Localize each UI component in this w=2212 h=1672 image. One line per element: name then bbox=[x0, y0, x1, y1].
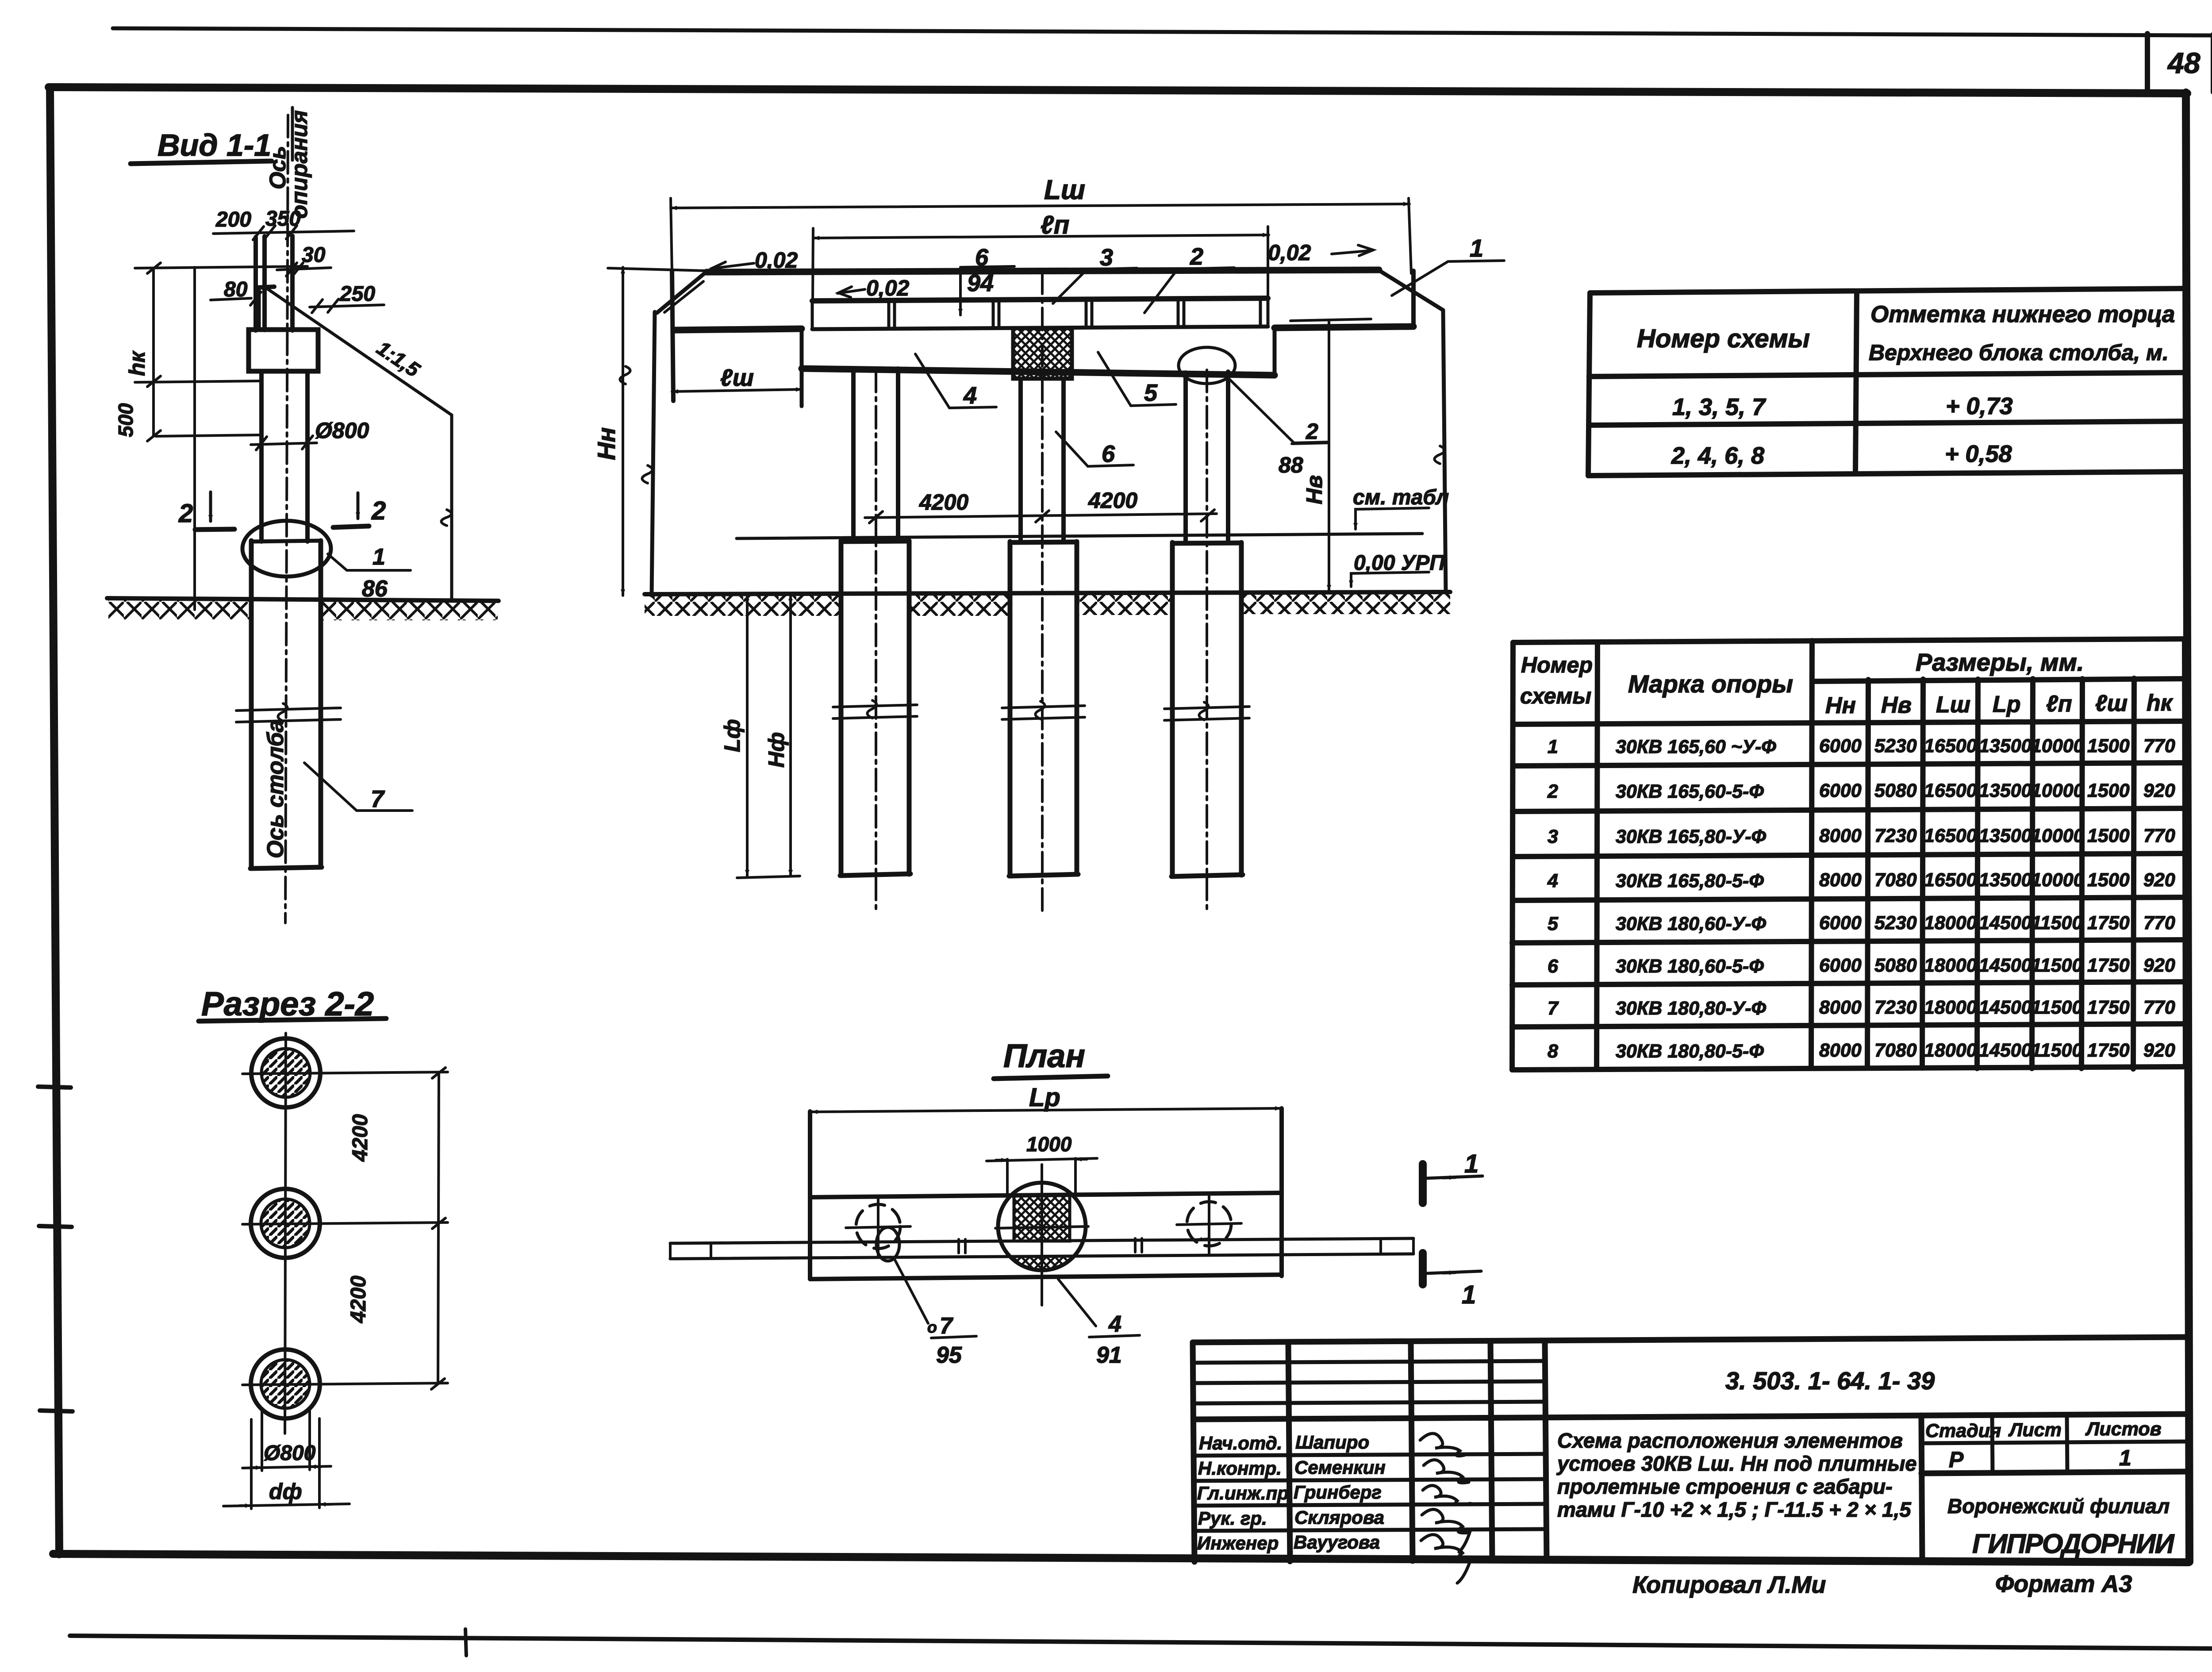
svg-text:500: 500 bbox=[114, 403, 137, 437]
dim 4200 4200 vertical bbox=[347, 1068, 445, 1389]
svg-text:Нач.отд.: Нач.отд. bbox=[1199, 1433, 1282, 1453]
svg-text:18000: 18000 bbox=[1924, 997, 1977, 1018]
svg-text:7230: 7230 bbox=[1874, 825, 1917, 846]
svg-text:11500: 11500 bbox=[2031, 997, 2082, 1018]
svg-text:0,02: 0,02 bbox=[755, 248, 798, 273]
svg-text:1: 1 bbox=[1462, 1280, 1476, 1309]
document number bbox=[1725, 1367, 1935, 1395]
svg-text:План: План bbox=[1003, 1038, 1085, 1074]
svg-text:770: 770 bbox=[2143, 735, 2175, 757]
pile circle 1 bbox=[242, 1038, 448, 1107]
sheet number box 48 bbox=[2147, 34, 2212, 92]
svg-text:920: 920 bbox=[2143, 869, 2175, 891]
dim Lsh top bbox=[671, 175, 1411, 273]
leader 4 bbox=[915, 354, 996, 409]
svg-text:30КВ 180,60-У-Ф: 30КВ 180,60-У-Ф bbox=[1616, 913, 1767, 934]
plan center column circle with pad bbox=[995, 1165, 1088, 1305]
svg-text:Инженер: Инженер bbox=[1197, 1533, 1279, 1553]
column axis dash-dot bbox=[285, 115, 288, 923]
embankment slope 1:1.5 bbox=[264, 286, 452, 600]
svg-text:dф: dф bbox=[269, 1479, 302, 1504]
svg-text:11500: 11500 bbox=[2031, 912, 2082, 934]
svg-text:ℓп: ℓп bbox=[1041, 211, 1069, 239]
leader 6 bbox=[1056, 432, 1133, 467]
svg-text:Номер схемы: Номер схемы bbox=[1637, 324, 1810, 353]
column center bbox=[1021, 272, 1064, 912]
dim Lp bbox=[811, 1083, 1281, 1112]
svg-text:схемы: схемы bbox=[1520, 684, 1591, 708]
svg-text:1: 1 bbox=[1548, 736, 1558, 757]
dim Hv (right) bbox=[1290, 319, 1371, 591]
svg-text:ГИПРОДОРНИИ: ГИПРОДОРНИИ bbox=[1972, 1529, 2175, 1559]
svg-text:1: 1 bbox=[1464, 1149, 1479, 1178]
svg-text:1500: 1500 bbox=[2087, 869, 2130, 891]
svg-text:10000: 10000 bbox=[2031, 869, 2084, 891]
cap right face bbox=[1411, 271, 1416, 327]
svg-text:Гл.инж.пр: Гл.инж.пр bbox=[1197, 1483, 1289, 1503]
svg-text:91: 91 bbox=[1096, 1342, 1122, 1368]
svg-text:Копировал Л.Ми: Копировал Л.Ми bbox=[1632, 1572, 1826, 1598]
svg-text:95: 95 bbox=[936, 1342, 962, 1368]
big table data bbox=[1547, 735, 2175, 1062]
svg-text:7230: 7230 bbox=[1874, 997, 1917, 1018]
bottom notes bbox=[1632, 1571, 2132, 1598]
svg-text:18000: 18000 bbox=[1924, 955, 1977, 976]
svg-text:см. табл: см. табл bbox=[1353, 486, 1449, 509]
svg-text:7080: 7080 bbox=[1874, 1040, 1917, 1061]
svg-text:6000: 6000 bbox=[1819, 735, 1862, 757]
svg-text:920: 920 bbox=[2143, 780, 2175, 801]
upper table texts bbox=[1637, 301, 2175, 469]
svg-text:7: 7 bbox=[1548, 998, 1559, 1019]
svg-text:1750: 1750 bbox=[2087, 912, 2130, 934]
svg-text:11500: 11500 bbox=[2031, 955, 2082, 976]
svg-text:350: 350 bbox=[265, 207, 301, 231]
cap block bbox=[249, 330, 318, 371]
svg-text:8000: 8000 bbox=[1819, 869, 1862, 891]
column right bbox=[1186, 370, 1228, 913]
svg-text:1, 3, 5, 7: 1, 3, 5, 7 bbox=[1672, 394, 1767, 420]
plan edge strip bbox=[670, 1238, 1413, 1259]
pile-top level line bbox=[737, 534, 1422, 538]
svg-text:Рук. гр.: Рук. гр. bbox=[1198, 1508, 1267, 1529]
dim d800 (section) bbox=[242, 1411, 331, 1471]
svg-text:Верхнего блока столба, м.: Верхнего блока столба, м. bbox=[1869, 340, 2169, 365]
svg-text:4: 4 bbox=[1547, 870, 1558, 892]
svg-text:14500: 14500 bbox=[1979, 997, 2032, 1018]
svg-text:30КВ 165,80-5-Ф: 30КВ 165,80-5-Ф bbox=[1616, 870, 1764, 892]
dim d800 (view) bbox=[251, 418, 369, 450]
svg-text:Формат А3: Формат А3 bbox=[1995, 1571, 2132, 1597]
svg-text:+ 0,73: + 0,73 bbox=[1946, 393, 2013, 419]
slope 0,02 right bbox=[1268, 240, 1373, 265]
svg-text:48: 48 bbox=[2167, 46, 2200, 79]
svg-text:Размеры, мм.: Размеры, мм. bbox=[1916, 648, 2084, 676]
svg-text:30КВ 165,60-5-Ф: 30КВ 165,60-5-Ф bbox=[1616, 781, 1764, 802]
dim lsh (cap left) bbox=[672, 365, 802, 392]
section mark 2 left bbox=[178, 492, 234, 530]
svg-text:устоев 30КВ Lш. Hн под плитные: устоев 30КВ Lш. Hн под плитные bbox=[1556, 1452, 1917, 1475]
description text bbox=[1556, 1429, 1917, 1521]
svg-text:Р: Р bbox=[1949, 1447, 1964, 1472]
svg-text:Номер: Номер bbox=[1521, 653, 1593, 677]
svg-text:5: 5 bbox=[1548, 913, 1559, 934]
svg-text:Lш: Lш bbox=[1936, 692, 1970, 718]
svg-text:920: 920 bbox=[2143, 955, 2175, 976]
pile right (elevation) bbox=[1171, 542, 1243, 876]
svg-text:8000: 8000 bbox=[1819, 997, 1862, 1018]
svg-text:ℓш: ℓш bbox=[2095, 691, 2128, 716]
svg-text:Марка опоры: Марка опоры bbox=[1628, 670, 1793, 698]
svg-text:Листов: Листов bbox=[2085, 1418, 2162, 1440]
dim Hf bbox=[764, 594, 791, 876]
big table grid bbox=[1512, 639, 2185, 1070]
organization bbox=[1947, 1495, 2175, 1559]
svg-text:Вауугова: Вауугова bbox=[1294, 1532, 1380, 1553]
svg-text:14500: 14500 bbox=[1979, 1040, 2032, 1061]
ground line (elevation) bbox=[645, 592, 1450, 616]
svg-text:4: 4 bbox=[1108, 1311, 1121, 1337]
pile break (view 1-1) bbox=[236, 703, 341, 722]
svg-text:6000: 6000 bbox=[1819, 912, 1862, 934]
shelf line bbox=[802, 369, 1275, 375]
svg-text:1: 1 bbox=[1470, 234, 1483, 262]
svg-text:13500: 13500 bbox=[1979, 869, 2032, 891]
svg-text:8000: 8000 bbox=[1819, 825, 1862, 846]
dim 30 bbox=[277, 243, 331, 276]
svg-text:1500: 1500 bbox=[2087, 735, 2130, 757]
svg-text:ℓш: ℓш bbox=[720, 365, 754, 391]
svg-text:ℓп: ℓп bbox=[2046, 691, 2072, 717]
dim df (section) bbox=[223, 1418, 349, 1509]
bearing level extension bbox=[135, 266, 307, 268]
svg-text:770: 770 bbox=[2143, 997, 2175, 1018]
svg-text:3. 503. 1- 64. 1- 39: 3. 503. 1- 64. 1- 39 bbox=[1725, 1367, 1935, 1395]
svg-text:4200: 4200 bbox=[349, 1114, 372, 1162]
slab top line bbox=[812, 298, 1268, 301]
svg-text:Hн: Hн bbox=[592, 427, 620, 460]
svg-text:0,00 УРП: 0,00 УРП bbox=[1354, 551, 1445, 575]
cap top right segment bbox=[1275, 327, 1413, 328]
svg-text:Ось столба: Ось столба bbox=[263, 719, 288, 858]
svg-text:30: 30 bbox=[302, 243, 326, 267]
dim 80 bbox=[211, 278, 261, 305]
svg-text:2, 4, 6, 8: 2, 4, 6, 8 bbox=[1671, 442, 1764, 469]
pile left (elevation) bbox=[840, 541, 910, 876]
column shaft bbox=[261, 371, 307, 542]
svg-text:30КВ 180,80-У-Ф: 30КВ 180,80-У-Ф bbox=[1616, 998, 1767, 1019]
svg-text:200: 200 bbox=[215, 208, 251, 231]
svg-text:770: 770 bbox=[2143, 825, 2175, 846]
svg-text:1500: 1500 bbox=[2087, 780, 2130, 801]
dim 200-350 bbox=[213, 207, 354, 240]
bottom edge tick bbox=[465, 1629, 466, 1656]
svg-text:Lш: Lш bbox=[1044, 175, 1085, 205]
svg-text:1750: 1750 bbox=[2087, 955, 2130, 976]
svg-text:Н.контр.: Н.контр. bbox=[1198, 1458, 1282, 1479]
svg-text:Воронежский филиал: Воронежский филиал bbox=[1947, 1495, 2170, 1518]
svg-text:hк: hк bbox=[2147, 690, 2174, 716]
section 2-2 title bbox=[199, 985, 386, 1023]
svg-text:Шапиро: Шапиро bbox=[1295, 1432, 1369, 1453]
svg-text:80: 80 bbox=[224, 278, 248, 301]
plan left column dashed circle bbox=[846, 1199, 910, 1256]
svg-text:Отметка нижнего торца: Отметка нижнего торца bbox=[1870, 301, 2175, 327]
svg-text:hк: hк bbox=[125, 350, 150, 376]
svg-text:Склярова: Склярова bbox=[1294, 1507, 1384, 1528]
pile center (elevation) bbox=[1009, 542, 1078, 876]
svg-text:1: 1 bbox=[2119, 1445, 2131, 1470]
slab joints bbox=[812, 298, 1268, 329]
svg-text:опирания: опирания bbox=[287, 110, 312, 219]
svg-text:Hф: Hф bbox=[764, 732, 789, 768]
svg-text:13500: 13500 bbox=[1979, 780, 2032, 801]
svg-text:18000: 18000 bbox=[1924, 912, 1977, 934]
svg-text:88: 88 bbox=[1279, 453, 1303, 477]
ground line (view 1-1) bbox=[107, 598, 499, 620]
view 1-1 title bbox=[131, 128, 272, 164]
svg-text:5230: 5230 bbox=[1874, 912, 1917, 934]
column axis label bbox=[263, 719, 288, 858]
plan cap rectangle bbox=[810, 1108, 1282, 1279]
svg-text:1000: 1000 bbox=[1026, 1133, 1072, 1156]
right embankment edge vertical bbox=[1434, 310, 1446, 592]
svg-text:5080: 5080 bbox=[1874, 780, 1917, 801]
svg-text:Lф: Lф bbox=[720, 719, 745, 752]
label 6-94 bbox=[960, 244, 1014, 315]
bearing axis line bbox=[291, 108, 294, 160]
svg-text:Стадия: Стадия bbox=[1925, 1420, 2001, 1441]
post (stand) bbox=[256, 236, 292, 331]
svg-text:250: 250 bbox=[339, 282, 375, 306]
cap left face bbox=[672, 271, 673, 401]
title block grid bbox=[1193, 1337, 2187, 1562]
long left extension line bbox=[193, 267, 196, 610]
svg-text:16500: 16500 bbox=[1924, 869, 1977, 891]
svg-text:4200: 4200 bbox=[919, 490, 968, 515]
svg-text:1500: 1500 bbox=[2087, 825, 2130, 846]
slope 0,02 middle bbox=[837, 276, 910, 300]
svg-text:10000: 10000 bbox=[2031, 780, 2084, 801]
svg-text:Ø800: Ø800 bbox=[315, 418, 369, 443]
svg-text:6000: 6000 bbox=[1819, 780, 1862, 801]
svg-text:0,02: 0,02 bbox=[1268, 240, 1311, 265]
dim 1000 bbox=[987, 1133, 1097, 1195]
bearing axis label bbox=[265, 110, 312, 219]
cap top left segment bbox=[675, 329, 802, 330]
svg-text:7: 7 bbox=[371, 786, 385, 812]
svg-text:7: 7 bbox=[940, 1313, 953, 1339]
svg-text:2: 2 bbox=[371, 496, 386, 525]
svg-text:Лист: Лист bbox=[2008, 1419, 2062, 1441]
detail ellipse 1/86 bbox=[242, 521, 411, 602]
buried pile (view 1-1) bbox=[250, 541, 322, 869]
roadway top line bbox=[707, 270, 1379, 272]
svg-text:тами Г-10 +2 × 1,5 ; Г-11.5 +: тами Г-10 +2 × 1,5 ; Г-11.5 + 2 × 1,5 bbox=[1557, 1498, 1912, 1521]
svg-text:10000: 10000 bbox=[2031, 735, 2084, 757]
svg-text:8000: 8000 bbox=[1819, 1040, 1862, 1061]
svg-text:4: 4 bbox=[963, 382, 977, 409]
dim Lf bbox=[720, 594, 747, 876]
svg-text:Hв: Hв bbox=[1881, 692, 1912, 718]
svg-text:+ 0,58: + 0,58 bbox=[1945, 441, 2012, 467]
svg-text:6: 6 bbox=[1102, 441, 1115, 467]
svg-text:16500: 16500 bbox=[1924, 735, 1977, 757]
level 0,00 URP bbox=[1351, 551, 1445, 587]
svg-text:Гринберг: Гринберг bbox=[1294, 1482, 1382, 1503]
svg-text:6: 6 bbox=[1548, 956, 1559, 977]
bearing pad (crosshatched) bbox=[1013, 328, 1072, 379]
svg-text:770: 770 bbox=[2143, 912, 2175, 934]
svg-text:5080: 5080 bbox=[1874, 955, 1917, 976]
svg-text:5: 5 bbox=[1144, 380, 1158, 406]
title block signatures column texts bbox=[1197, 1432, 1386, 1553]
svg-text:3: 3 bbox=[1100, 244, 1113, 271]
svg-text:7080: 7080 bbox=[1874, 869, 1917, 891]
leader 3 bbox=[1053, 244, 1137, 304]
svg-text:пролетные строения с габари-: пролетные строения с габари- bbox=[1557, 1475, 1893, 1498]
dim Hn (left) bbox=[592, 267, 707, 596]
left end diagonal bbox=[657, 272, 707, 313]
svg-text:2: 2 bbox=[1547, 781, 1558, 802]
svg-text:30КВ 180,60-5-Ф: 30КВ 180,60-5-Ф bbox=[1616, 956, 1764, 977]
svg-text:16500: 16500 bbox=[1924, 825, 1977, 846]
dim lp bbox=[813, 211, 1269, 301]
pile bottom tick line bbox=[737, 876, 800, 878]
plan label 4/91 bbox=[1058, 1279, 1140, 1368]
svg-text:3: 3 bbox=[1548, 826, 1558, 847]
section axis vertical bbox=[285, 1033, 286, 1434]
svg-text:13500: 13500 bbox=[1979, 825, 2032, 846]
svg-text:2: 2 bbox=[1306, 419, 1318, 444]
svg-text:1750: 1750 bbox=[2087, 1040, 2130, 1061]
svg-text:Схема расположения элементов: Схема расположения элементов bbox=[1557, 1429, 1903, 1452]
svg-text:8: 8 bbox=[1548, 1041, 1558, 1062]
svg-text:11500: 11500 bbox=[2031, 1040, 2082, 1061]
svg-text:6000: 6000 bbox=[1819, 955, 1862, 976]
dim 4200 4200 (elevation) bbox=[865, 488, 1217, 523]
pile circle 2 bbox=[242, 1189, 448, 1258]
section mark 1 bottom bbox=[1423, 1253, 1481, 1309]
svg-text:94: 94 bbox=[967, 270, 994, 296]
stage sheet cells bbox=[1925, 1418, 2162, 1472]
top thin page line bbox=[113, 28, 2212, 35]
plan detail ellipse 7/95 bbox=[876, 1227, 976, 1368]
svg-text:2: 2 bbox=[1190, 243, 1203, 270]
upper table grid bbox=[1588, 288, 2187, 476]
svg-text:4200: 4200 bbox=[347, 1276, 370, 1323]
svg-text:16500: 16500 bbox=[1924, 780, 1977, 801]
svg-text:30КВ 180,80-5-Ф: 30КВ 180,80-5-Ф bbox=[1616, 1041, 1764, 1062]
leader 2 bbox=[1144, 243, 1234, 313]
column left bbox=[853, 369, 898, 911]
svg-text:10000: 10000 bbox=[2031, 825, 2084, 846]
leader 1 bbox=[1392, 234, 1504, 296]
plan title bbox=[994, 1038, 1108, 1079]
handwritten signatures bbox=[1420, 1434, 1471, 1583]
section mark 2 right bbox=[333, 493, 386, 527]
svg-text:2: 2 bbox=[178, 499, 193, 528]
svg-text:1:1,5: 1:1,5 bbox=[373, 336, 424, 382]
svg-text:Hв: Hв bbox=[1302, 475, 1327, 504]
shelf step verticals bbox=[802, 327, 1275, 406]
svg-text:30КВ 165,60 ~У-Ф: 30КВ 165,60 ~У-Ф bbox=[1616, 736, 1776, 757]
svg-text:o: o bbox=[927, 1318, 937, 1336]
pile circle 3 bbox=[242, 1349, 448, 1418]
leader 5 bbox=[1098, 352, 1176, 406]
svg-text:5230: 5230 bbox=[1874, 735, 1917, 757]
svg-text:1750: 1750 bbox=[2087, 997, 2130, 1018]
svg-text:30КВ 165,80-У-Ф: 30КВ 165,80-У-Ф bbox=[1616, 826, 1767, 847]
svg-text:920: 920 bbox=[2143, 1040, 2175, 1061]
svg-text:1: 1 bbox=[373, 544, 385, 570]
left edge centering ticks bbox=[38, 1087, 73, 1411]
svg-text:Hн: Hн bbox=[1825, 693, 1856, 719]
svg-text:4200: 4200 bbox=[1088, 488, 1137, 513]
svg-text:Ø800: Ø800 bbox=[264, 1441, 316, 1465]
svg-text:Семенкин: Семенкин bbox=[1294, 1457, 1386, 1478]
svg-text:Lр: Lр bbox=[1993, 692, 2021, 717]
right end diagonal bbox=[1379, 270, 1443, 310]
slope 0,02 left bbox=[711, 248, 798, 273]
dim 250 bbox=[310, 282, 384, 313]
detail ellipse 2/88 bbox=[1179, 347, 1328, 477]
plan right column dashed circle bbox=[1177, 1196, 1241, 1253]
hk / 500 dimension line bbox=[114, 263, 262, 441]
outer bottom page line bbox=[70, 1636, 2212, 1649]
svg-text:14500: 14500 bbox=[1979, 955, 2032, 976]
pile breaks (elevation) bbox=[833, 700, 1249, 720]
svg-text:Вид 1-1: Вид 1-1 bbox=[157, 128, 271, 162]
svg-text:14500: 14500 bbox=[1979, 912, 2032, 934]
big table headers bbox=[1520, 648, 2174, 719]
see table note bbox=[1353, 486, 1449, 529]
slab bottom line bbox=[812, 327, 1268, 329]
section mark 1 top bbox=[1423, 1149, 1482, 1203]
left embankment edge vertical bbox=[642, 312, 655, 596]
svg-text:Lр: Lр bbox=[1029, 1083, 1060, 1112]
leader 7 bbox=[304, 763, 412, 812]
svg-text:18000: 18000 bbox=[1924, 1040, 1977, 1061]
svg-text:0,02: 0,02 bbox=[866, 276, 910, 300]
svg-text:13500: 13500 bbox=[1979, 735, 2032, 757]
